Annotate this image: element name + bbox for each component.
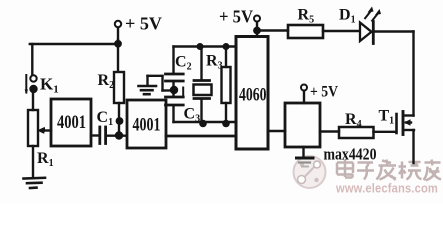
svg-text:www.elecfans.com: www.elecfans.com (335, 182, 438, 196)
svg-text:max4420: max4420 (324, 145, 377, 164)
svg-text:+ 5V: + 5V (219, 7, 253, 27)
svg-text:+ 5V: + 5V (125, 14, 162, 34)
svg-text:4001: 4001 (133, 114, 161, 135)
svg-text:4001: 4001 (57, 111, 86, 132)
svg-text:+ 5V: + 5V (310, 84, 338, 101)
svg-text:4060: 4060 (239, 84, 267, 105)
